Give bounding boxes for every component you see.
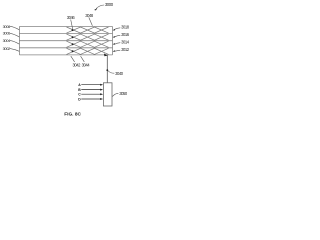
arrow D — [81, 98, 100, 100]
svg-text:3046: 3046 — [67, 15, 76, 20]
leader 3004 — [10, 40, 20, 44]
svg-text:3000: 3000 — [105, 2, 114, 7]
box 3050 — [103, 83, 112, 106]
line 4 — [19, 47, 112, 49]
arrow A — [81, 84, 100, 86]
line 1 (top boundary) — [19, 26, 112, 28]
svg-text:3018: 3018 — [121, 24, 130, 29]
braid layer 3 — [67, 41, 109, 47]
leader 3046 — [71, 20, 73, 30]
svg-text:3042: 3042 — [73, 62, 82, 67]
line 2 — [19, 33, 112, 35]
svg-text:3012: 3012 — [121, 47, 130, 52]
arrowhead 3014 — [113, 43, 116, 45]
leader 3042 — [71, 56, 75, 62]
leader 3008 — [10, 26, 20, 30]
leader 3016 — [113, 35, 120, 37]
line 5 (bottom boundary) — [19, 54, 112, 56]
svg-text:3016: 3016 — [121, 32, 130, 37]
junction arrowhead on bottom line — [104, 54, 108, 57]
leader 3006 — [10, 33, 20, 37]
svg-text:3050: 3050 — [119, 91, 128, 96]
leader 3014 — [113, 43, 120, 45]
leader 3044 — [81, 56, 85, 62]
svg-text:3044: 3044 — [82, 62, 91, 67]
braid layer 4 — [67, 48, 109, 54]
arrow C — [81, 93, 100, 95]
dot on vertical line — [106, 69, 108, 71]
leader 3002 — [10, 48, 20, 51]
leader for 3000 — [96, 5, 104, 9]
svg-text:3040: 3040 — [115, 71, 124, 76]
svg-text:3048: 3048 — [85, 13, 94, 18]
arrowhead 3000 — [94, 8, 97, 10]
arrowhead 3018 — [113, 29, 116, 31]
right edge vertical — [112, 27, 114, 55]
leader 3048 — [89, 17, 93, 25]
braid dot layer 3 — [72, 43, 74, 45]
line 3 — [19, 40, 112, 42]
leader 3050 — [112, 93, 118, 96]
braid layer 1 — [67, 27, 109, 33]
braid dot layer 4 — [72, 50, 74, 52]
arrowhead 3012 — [113, 50, 116, 52]
leader 3018 — [113, 28, 120, 30]
vertical line from stack to box — [106, 55, 108, 83]
layer stack horizontal lines — [19, 27, 112, 55]
svg-text:3014: 3014 — [121, 39, 130, 44]
svg-text:FIG. 8C: FIG. 8C — [64, 112, 81, 118]
arrow B — [81, 89, 100, 91]
arrowhead 3016 — [113, 36, 116, 38]
braid dot layer 2 — [72, 36, 74, 38]
braid dot layer 1 — [72, 29, 74, 31]
braid layer 2 — [67, 34, 109, 40]
leader 3040 — [108, 71, 114, 73]
left edge vertical — [18, 27, 20, 55]
leader 3012 — [113, 50, 120, 51]
